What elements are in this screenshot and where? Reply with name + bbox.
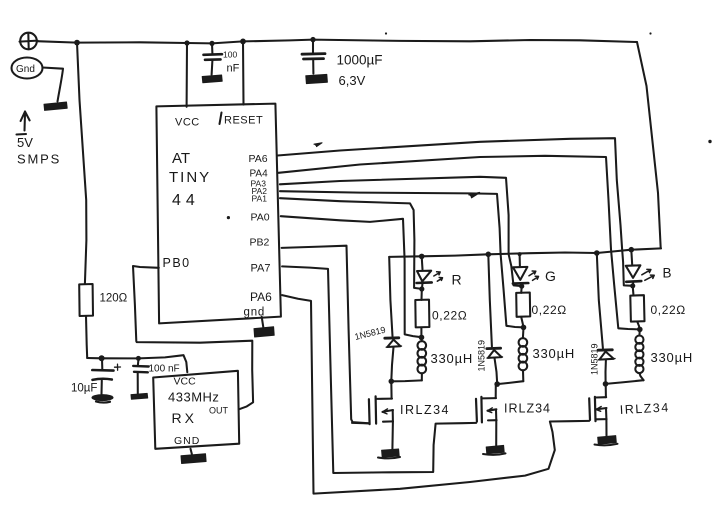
inductor L2 330uH <box>519 328 575 382</box>
arrow 5V SMPS <box>17 112 62 167</box>
wire LED supply rail <box>389 248 661 257</box>
ground (Q2 source) <box>483 445 506 454</box>
wire RESET pin <box>242 41 245 104</box>
wire PA0 to R inductor sense <box>281 216 422 337</box>
junction T (R4 / L3) <box>637 327 643 333</box>
svg-text:R: R <box>452 272 462 288</box>
capacitor C4 100nF <box>133 359 179 394</box>
ground symbol (input) <box>44 102 67 110</box>
resistor R1 120ohm <box>79 284 127 316</box>
transistor Q2 IRLZ34 <box>476 384 551 445</box>
LED D3 B <box>626 250 672 286</box>
svg-text:RESET: RESET <box>224 115 263 127</box>
wire PA3 to G LED sense <box>280 177 522 286</box>
svg-text:0,22Ω: 0,22Ω <box>432 309 467 323</box>
svg-text:TINY: TINY <box>169 169 211 186</box>
svg-text:VCC: VCC <box>174 376 197 388</box>
junction A (rail / 5V feed) <box>74 40 80 46</box>
wire R1 bottom to VCC node <box>86 316 187 372</box>
diode D5 1N5819 (G freewheel) <box>477 255 503 384</box>
ground (C1) <box>202 75 222 83</box>
junction P (G LED cathode) <box>519 284 524 289</box>
svg-text:433MHz: 433MHz <box>168 390 219 405</box>
diode D6 1N5819 (B freewheel) <box>590 253 616 383</box>
svg-text:0,22Ω: 0,22Ω <box>651 303 686 317</box>
svg-text:RX: RX <box>172 410 197 426</box>
ground (Q1 source) <box>378 449 400 458</box>
wire right-edge drop from rail to LED rail <box>637 42 661 248</box>
junction K (rail / B diode) <box>594 250 600 256</box>
junction H (rail / R LED) <box>419 254 425 260</box>
junction Q (R3 / L2) <box>521 325 527 331</box>
wire PA7 to Q2 gate <box>282 266 476 473</box>
capacitor C2 1000uF <box>302 40 383 88</box>
svg-text:PB0: PB0 <box>163 256 191 270</box>
junction J (rail / G LED) <box>518 252 522 256</box>
junction R2 (G drain node) <box>494 381 500 387</box>
svg-text:B: B <box>663 266 672 281</box>
svg-text:IRLZ34: IRLZ34 <box>400 403 450 417</box>
wire VCC pin <box>186 43 188 107</box>
svg-text:330µH: 330µH <box>533 346 576 361</box>
resistor R4 0.22ohm <box>630 286 686 329</box>
svg-text:nF: nF <box>227 63 240 75</box>
wire PA6 top to B LED sense <box>278 138 633 286</box>
junction S (B LED cathode) <box>630 283 635 288</box>
wire L1 bottom to drain <box>391 379 422 382</box>
svg-text:OUT: OUT <box>209 406 229 416</box>
arrow mark on PA2 wire <box>469 193 480 198</box>
svg-text:6,3V: 6,3V <box>339 73 366 88</box>
wire PA1 to R LED sense <box>280 198 422 289</box>
wire L2 bottom to drain <box>497 381 523 384</box>
svg-text:100 nF: 100 nF <box>149 364 180 375</box>
LED D2 G <box>513 254 556 286</box>
svg-text:AT: AT <box>172 150 190 167</box>
transistor Q3 IRLZ34 <box>589 384 670 435</box>
ink speck 3 <box>708 140 711 143</box>
junction L (rail / B LED) <box>629 247 635 253</box>
junction I (rail / G diode) <box>486 252 492 258</box>
svg-text:5V: 5V <box>17 135 33 150</box>
junction C (rail / C1) <box>209 41 214 46</box>
wire PB2 to Q1 gate <box>282 246 369 424</box>
transistor Q1 IRLZ34 <box>352 382 450 449</box>
wire PB0 to RX OUT <box>133 266 253 409</box>
svg-text:IRLZ34: IRLZ34 <box>619 400 670 417</box>
svg-text:330µH: 330µH <box>651 350 694 365</box>
svg-text:0,22Ω: 0,22Ω <box>532 303 567 317</box>
power connector plus <box>20 33 38 50</box>
wire PA6 bottom to Q3 gate <box>282 295 589 494</box>
svg-text:IRLZ34: IRLZ34 <box>504 402 551 416</box>
capacitor C1 100nF <box>204 43 240 74</box>
junction G2 (VCC node / C4) <box>136 356 141 361</box>
wire PA2 to G inductor sense <box>280 191 524 327</box>
svg-text:SMPS: SMPS <box>17 152 61 167</box>
svg-text:PA1: PA1 <box>252 194 268 204</box>
arrow mark on PA6 wire <box>314 143 322 147</box>
svg-text:PA7: PA7 <box>251 263 271 275</box>
svg-text:PA6: PA6 <box>250 290 272 304</box>
capacitor C3 10uF <box>71 359 121 395</box>
junction F (VCC node / C3) <box>99 355 105 361</box>
svg-text:PA0: PA0 <box>251 212 270 224</box>
inductor L1 330uH <box>418 338 474 381</box>
svg-text:Gnd: Gnd <box>16 64 35 75</box>
svg-text:100: 100 <box>223 50 237 60</box>
svg-text:GND: GND <box>174 435 200 447</box>
junction U (B drain node) <box>603 381 609 387</box>
svg-text:G: G <box>545 268 556 284</box>
LED D1 R <box>417 257 462 289</box>
junction B (rail / VCC pin wire) <box>184 40 189 45</box>
ground (C4) <box>131 393 148 399</box>
resistor R2 0.22ohm <box>415 289 467 337</box>
wire L3 bottom to drain <box>606 380 644 384</box>
ground connector Gnd <box>12 58 64 102</box>
ground (Q3 source) <box>595 436 618 446</box>
ink speck 1 <box>385 32 387 34</box>
ground (C3) <box>92 394 114 402</box>
svg-text:330µH: 330µH <box>431 351 474 366</box>
svg-text:PA6: PA6 <box>249 153 268 165</box>
svg-text:1N5819: 1N5819 <box>590 343 600 375</box>
wire +5V top rail <box>37 40 637 44</box>
ground (C2) <box>306 74 328 83</box>
IC U1 ATtiny44 <box>156 104 281 324</box>
svg-text:VCC: VCC <box>175 117 200 129</box>
svg-text:44: 44 <box>172 192 200 209</box>
svg-text:1N5819: 1N5819 <box>477 340 487 372</box>
ink speck 2 <box>649 32 651 34</box>
svg-text:PB2: PB2 <box>250 237 270 249</box>
junction N (R2 / L1) <box>419 335 425 341</box>
resistor R3 0.22ohm <box>516 286 567 327</box>
diode D4 1N5819 (R freewheel) <box>354 257 402 381</box>
junction O (R drain node) <box>389 379 395 385</box>
svg-text:10µF: 10µF <box>71 383 97 395</box>
svg-text:1000µF: 1000µF <box>337 53 383 68</box>
svg-text:1N5819: 1N5819 <box>354 325 387 342</box>
junction E (rail / C2) <box>310 37 315 42</box>
junction D (rail / RESET wire) <box>240 39 246 45</box>
wire PA4 to B inductor sense <box>279 156 640 330</box>
wire 5V feed left vertical <box>77 43 86 284</box>
ground (IC gnd pin) <box>254 317 274 337</box>
svg-text:120Ω: 120Ω <box>100 293 128 305</box>
junction M (R LED cathode) <box>419 286 424 291</box>
ground (U2) <box>181 449 206 464</box>
inductor L3 330uH <box>635 330 693 381</box>
module U2 433MHz RX <box>153 371 239 449</box>
